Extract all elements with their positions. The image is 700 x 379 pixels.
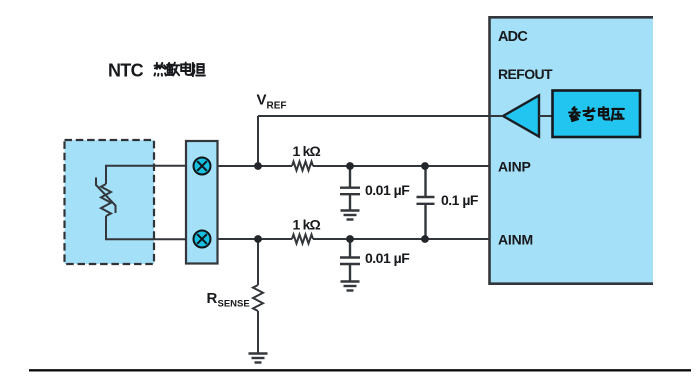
node RSENSE junction [254,235,262,243]
svg-text:ADC: ADC [498,29,528,45]
glyph 阻 [193,63,205,76]
wire AINM left segment [218,238,293,240]
thermistor RT1 [101,184,111,216]
ADC U1 body [490,17,654,283]
glyph 电 [599,107,609,119]
glyph 电 [181,63,191,75]
reference voltage block 参考电压 [553,91,641,138]
svg-text:AINP: AINP [498,159,531,175]
svg-text:1 kΩ: 1 kΩ [293,143,321,159]
svg-text:0.01 µF: 0.01 µF [365,182,410,198]
wire thermistor bottom [106,216,186,239]
svg-text:0.01 µF: 0.01 µF [365,250,410,266]
wire AINP left segment [218,165,293,167]
glyph 热 [155,63,167,76]
resistor R_SENSE [253,285,263,311]
node C2 bottom junction [421,235,429,243]
current source I2 [194,231,211,248]
node C3 junction [346,235,354,243]
wire R_SENSE top [257,239,259,285]
svg-text:NTC: NTC [108,61,144,81]
capacitor C1 0.01µF [340,167,360,211]
node C2 top junction [421,162,429,170]
current source I1 [194,158,211,175]
wire R_SENSE bottom [257,311,259,354]
capacitor C3 0.01µF [340,240,360,282]
op-amp reference buffer [503,96,539,137]
capacitor C2 0.1µF [417,167,435,238]
glyph 考 [583,107,594,120]
ground under R_SENSE [249,354,268,363]
current source block [186,141,218,264]
ground under C3 [341,282,360,291]
glyph 敏 [167,63,180,76]
resistor R2 1kΩ [292,235,313,244]
svg-text:SENSE: SENSE [218,299,250,310]
wire AINM right segment [313,238,489,240]
wire V_REF riser [257,116,259,166]
svg-text:REFOUT: REFOUT [498,66,553,82]
svg-text:AINM: AINM [498,232,533,248]
svg-text:V: V [257,92,267,109]
svg-text:0.1 µF: 0.1 µF [441,192,479,208]
wire AINP right segment [313,165,489,167]
node C1 junction [346,162,354,170]
wire V_REF horizontal [258,115,503,117]
resistor R1 1kΩ [292,162,313,171]
glyph 参 [569,107,580,121]
ground under C1 [341,211,360,220]
svg-text:REF: REF [267,101,287,112]
glyph 压 [612,109,624,120]
thermistor enclosure (dashed) [65,140,155,264]
node VREF junction [254,162,262,170]
wire buffer output to ref box [539,115,553,117]
svg-text:1 kΩ: 1 kΩ [293,217,321,233]
wire thermistor top [106,166,186,184]
svg-text:R: R [207,290,218,307]
